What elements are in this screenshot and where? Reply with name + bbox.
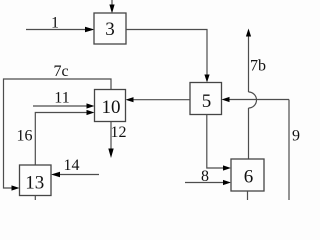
wire stream from node 9 into box 5 right xyxy=(222,97,290,102)
svg-text:5: 5 xyxy=(202,91,212,112)
svg-text:11: 11 xyxy=(54,90,69,107)
wire stream 9 vertical xyxy=(288,100,290,201)
wire stream 8 arrow into box 6 xyxy=(185,180,231,185)
wire box 13 bottom output xyxy=(34,196,36,201)
box unit 10 xyxy=(95,90,126,122)
wire stream 12 output arrow down xyxy=(108,122,113,159)
svg-text:10: 10 xyxy=(102,97,121,118)
wire box 3 to box 5 xyxy=(126,30,210,83)
wire stream 7b with hop over junction xyxy=(246,29,257,160)
svg-text:16: 16 xyxy=(17,128,33,145)
wire stream 14 arrow into box 13 xyxy=(51,172,99,177)
svg-text:3: 3 xyxy=(105,19,115,40)
wire box 6 bottom output xyxy=(247,191,249,200)
svg-text:7b: 7b xyxy=(250,58,266,75)
svg-text:14: 14 xyxy=(64,157,80,174)
box unit 3 xyxy=(94,13,126,44)
wire stream 11 arrow into box 10 xyxy=(33,103,95,108)
wire top feed into box 3 xyxy=(109,0,114,14)
wire box 5 bottom to box 6 left xyxy=(207,115,231,171)
box unit 13 xyxy=(20,165,52,196)
svg-text:7c: 7c xyxy=(53,63,68,80)
svg-text:6: 6 xyxy=(244,167,254,188)
box unit 5 xyxy=(190,83,222,115)
wire stream 7c from box 10 top around to box 13 left xyxy=(4,79,112,191)
svg-text:8: 8 xyxy=(201,168,209,185)
box unit 6 xyxy=(231,159,264,191)
wire stream 1 arrow into box 3 left xyxy=(26,27,95,32)
svg-text:12: 12 xyxy=(111,124,127,141)
wire box 5 to box 10 arrow xyxy=(126,97,191,102)
svg-text:13: 13 xyxy=(25,173,44,194)
svg-text:1: 1 xyxy=(51,15,59,32)
wire stream 16 from box 13 top into box 10 xyxy=(35,110,94,165)
svg-text:9: 9 xyxy=(292,128,300,145)
